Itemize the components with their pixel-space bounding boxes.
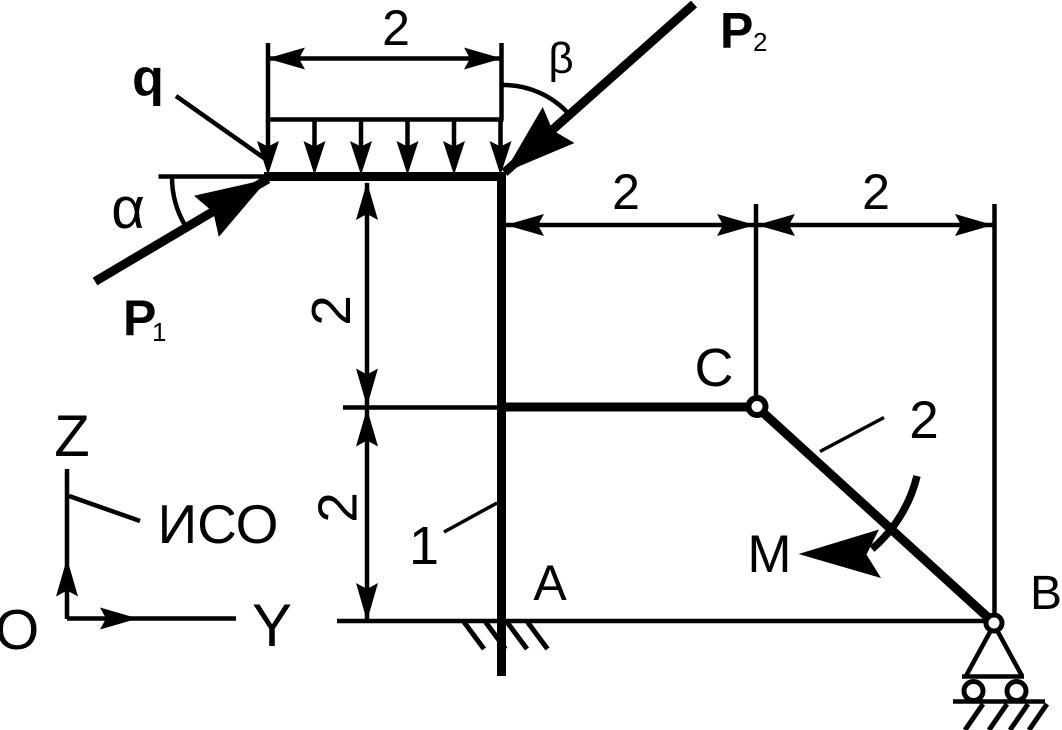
top dimension extension line left bbox=[266, 43, 271, 122]
support B triangle left leg bbox=[966, 632, 990, 676]
horizontal member extension thin line bbox=[343, 405, 497, 410]
member 2 leader line bbox=[820, 418, 884, 452]
svg-text:2: 2 bbox=[862, 164, 890, 220]
pin B bbox=[986, 615, 1002, 631]
roller right bbox=[1007, 682, 1026, 701]
support B hatching bbox=[965, 704, 983, 730]
vertical dimension upper segment bbox=[365, 183, 370, 406]
top dimension line bbox=[268, 56, 502, 61]
support B triangle right leg bbox=[998, 632, 1022, 676]
svg-text:1: 1 bbox=[152, 317, 166, 347]
svg-text:1: 1 bbox=[409, 516, 439, 576]
inclined member 2 from C to B bbox=[764, 413, 989, 618]
svg-text:O: O bbox=[0, 598, 39, 662]
load arrow 4 bbox=[405, 120, 410, 148]
horizontal member to C bbox=[497, 403, 747, 412]
svg-text:P: P bbox=[720, 3, 753, 59]
svg-text:2: 2 bbox=[612, 164, 640, 220]
svg-text:2: 2 bbox=[382, 0, 410, 56]
vertical dimension lower segment bbox=[365, 410, 370, 620]
svg-text:β: β bbox=[548, 34, 573, 83]
svg-text:B: B bbox=[1030, 567, 1062, 620]
svg-text:q: q bbox=[132, 49, 164, 107]
moment M arc bbox=[872, 476, 917, 549]
Z axis bbox=[65, 469, 70, 619]
svg-text:C: C bbox=[695, 338, 734, 398]
load arrow 2 bbox=[312, 120, 317, 148]
top horizontal beam bbox=[264, 172, 506, 181]
top dimension extension line right bbox=[499, 43, 504, 120]
alpha reference line bbox=[159, 174, 266, 179]
svg-text:M: M bbox=[747, 525, 791, 584]
svg-text:ИСО: ИСО bbox=[158, 493, 279, 555]
force P1 line bbox=[95, 179, 268, 282]
Y axis bbox=[67, 616, 236, 621]
ISO leader line bbox=[69, 496, 140, 521]
svg-text:A: A bbox=[533, 555, 567, 611]
svg-text:Z: Z bbox=[54, 404, 89, 469]
support B base line bbox=[962, 674, 1024, 679]
svg-text:2: 2 bbox=[753, 27, 767, 57]
svg-text:2: 2 bbox=[307, 492, 369, 523]
pin C bbox=[749, 398, 766, 415]
q leader line bbox=[176, 96, 264, 158]
baseline bbox=[337, 619, 984, 624]
roller left bbox=[964, 682, 983, 701]
support B ground line bbox=[953, 699, 1045, 704]
svg-text:2: 2 bbox=[909, 391, 938, 450]
alpha angle arc bbox=[172, 177, 186, 226]
beam 1 vertical member bbox=[497, 172, 506, 676]
moment M arrowhead bbox=[799, 530, 882, 579]
svg-text:Y: Y bbox=[252, 592, 292, 659]
member 1 leader line bbox=[444, 503, 497, 532]
load arrow 5 bbox=[452, 120, 457, 148]
force P2 line bbox=[505, 4, 695, 173]
right dimension line bbox=[506, 223, 993, 228]
distributed load q top line bbox=[266, 117, 504, 122]
middle extension line to C bbox=[754, 204, 759, 396]
load arrow 3 bbox=[359, 120, 364, 148]
load arrow 1 bbox=[266, 120, 271, 148]
support A hatching bbox=[464, 622, 484, 649]
beta angle arc bbox=[504, 85, 570, 115]
svg-text:α: α bbox=[111, 176, 145, 241]
load arrow 6 bbox=[498, 120, 503, 148]
svg-text:2: 2 bbox=[300, 295, 362, 326]
right extension line to B bbox=[992, 204, 997, 613]
